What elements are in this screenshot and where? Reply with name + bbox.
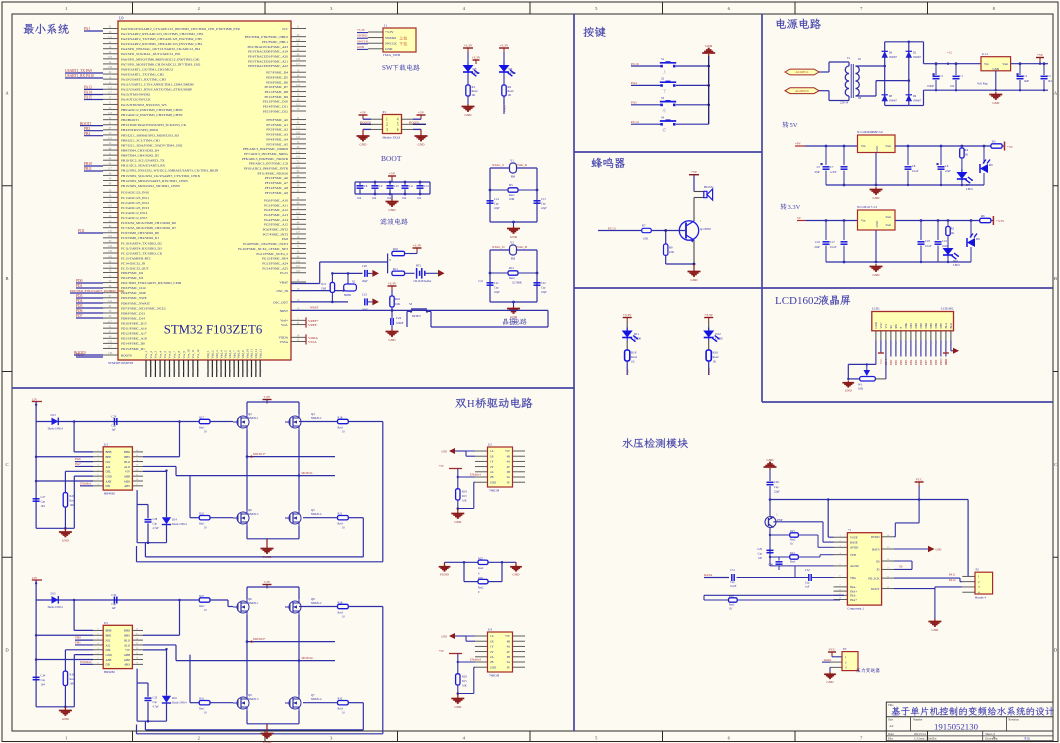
svg-text:104: 104 <box>402 197 407 200</box>
svg-text:D16: D16 <box>172 697 177 700</box>
svg-text:C19: C19 <box>942 239 947 243</box>
svg-text:D9: D9 <box>989 163 993 167</box>
svg-text:STM32 F103ZET6: STM32 F103ZET6 <box>164 323 263 337</box>
svg-text:+3.3V: +3.3V <box>500 44 509 48</box>
svg-text:PB11/I2C2_SDA/USART3_RX: PB11/I2C2_SDA/USART3_RX <box>121 164 166 168</box>
svg-text:BASE: BASE <box>850 540 858 544</box>
svg-text:Vss_4: Vss_4 <box>158 350 162 358</box>
svg-text:VSSA: VSSA <box>308 340 317 344</box>
svg-text:PD9/FSMC_D14: PD9/FSMC_D14 <box>121 316 145 320</box>
svg-text:NMOS-1: NMOS-1 <box>248 602 259 605</box>
svg-text:Q7: Q7 <box>311 693 315 697</box>
svg-text:MOTO1-: MOTO1- <box>302 471 314 475</box>
svg-text:Res1: Res1 <box>199 605 205 608</box>
svg-text:2B: 2B <box>490 660 493 664</box>
svg-text:BLK: BLK <box>949 322 953 329</box>
svg-text:Vout: Vout <box>885 215 891 219</box>
svg-text:PC8/TIM8_CH3/SDIO_D0: PC8/TIM8_CH3/SDIO_D0 <box>121 231 159 235</box>
svg-text:AHE: AHE <box>106 658 112 662</box>
svg-text:C22: C22 <box>541 282 546 285</box>
svg-text:DB6: DB6 <box>920 359 923 365</box>
svg-text:DB3: DB3 <box>905 359 908 365</box>
svg-text:AHS: AHS <box>124 484 130 488</box>
svg-text:Vdd_13: Vdd_13 <box>258 348 262 358</box>
svg-text:C18: C18 <box>925 239 930 243</box>
svg-text:Cap: Cap <box>153 523 158 526</box>
svg-text:3.3V: 3.3V <box>788 204 801 211</box>
svg-text:CR1220/holder: CR1220/holder <box>414 279 432 283</box>
svg-text:VO: VO <box>884 324 888 328</box>
svg-text:Cap: Cap <box>41 679 46 682</box>
svg-text:C24: C24 <box>396 316 402 320</box>
svg-text:Cap: Cap <box>541 287 546 290</box>
svg-text:7.2V: 7.2V <box>264 395 271 399</box>
svg-text:DATA: DATA <box>824 658 833 662</box>
svg-text:R19: R19 <box>462 490 467 494</box>
svg-text:GND: GND <box>873 273 881 277</box>
svg-text:File:: File: <box>888 737 893 741</box>
svg-text:Q5: Q5 <box>311 508 315 512</box>
svg-text:PB1: PB1 <box>75 640 81 644</box>
svg-text:C21: C21 <box>494 282 499 285</box>
svg-text:GND: GND <box>389 338 397 342</box>
svg-text:GND: GND <box>106 474 112 478</box>
svg-text:PF10/ADC3_IN8/FSMC_INTR: PF10/ADC3_IN8/FSMC_INTR <box>244 167 289 171</box>
svg-text:SWDIO: SWDIO <box>357 34 368 38</box>
svg-text:Component_1: Component_1 <box>847 607 864 611</box>
svg-text:S4: S4 <box>661 115 665 119</box>
svg-text:100uF: 100uF <box>927 85 934 88</box>
svg-text:PA7/SPI1_MOSI/TIM8_CH1N/ADC12_: PA7/SPI1_MOSI/TIM8_CH1N/ADC12_IN7/TIM3_C… <box>121 62 201 66</box>
svg-text:DATA: DATA <box>704 573 713 577</box>
svg-text:S3: S3 <box>409 302 413 306</box>
svg-text:4: 4 <box>397 118 399 122</box>
svg-text:PC0: PC0 <box>626 369 630 375</box>
svg-text:PE9/FSMC_D6: PE9/FSMC_D6 <box>266 80 288 84</box>
svg-text:4B: 4B <box>507 639 510 643</box>
svg-text:NMOS-3: NMOS-3 <box>248 698 259 701</box>
svg-text:PE14/FSMC_D11: PE14/FSMC_D11 <box>263 105 288 109</box>
svg-text:PA14/JTCK/SWCLK: PA14/JTCK/SWCLK <box>121 98 151 102</box>
svg-text:Vss_11: Vss_11 <box>191 349 195 358</box>
svg-text:Y2: Y2 <box>510 241 514 245</box>
svg-text:Volt Reg: Volt Reg <box>977 82 988 86</box>
svg-text:U5: U5 <box>104 621 108 625</box>
svg-text:8M: 8M <box>511 257 516 261</box>
svg-text:Res3: Res3 <box>338 612 344 615</box>
svg-text:BATS: BATS <box>872 547 880 551</box>
svg-text:C7: C7 <box>830 165 834 169</box>
svg-text:Res2: Res2 <box>478 567 484 570</box>
svg-text:PC2/ADC123_IN12: PC2/ADC123_IN12 <box>121 201 149 205</box>
svg-text:NMOS-4: NMOS-4 <box>311 698 322 701</box>
svg-text:GND: GND <box>873 196 881 200</box>
svg-text:DEL: DEL <box>106 470 112 474</box>
svg-text:SWCLK: SWCLK <box>357 39 369 43</box>
svg-text:R31: R31 <box>199 697 204 701</box>
svg-text:74HC08: 74HC08 <box>489 489 500 493</box>
svg-text:N1 LM2940IMP-5.0: N1 LM2940IMP-5.0 <box>857 130 883 134</box>
svg-text:C21: C21 <box>478 280 483 283</box>
svg-text:PE1/FSMC_NBL1: PE1/FSMC_NBL1 <box>262 40 288 44</box>
svg-text:C31: C31 <box>730 569 735 572</box>
svg-text:PB10/I2C2_SCL/USART3_TX: PB10/I2C2_SCL/USART3_TX <box>121 159 165 163</box>
svg-text:DB7: DB7 <box>925 359 928 365</box>
svg-text:MOTO1+: MOTO1+ <box>253 452 266 456</box>
svg-text:PD2/TIM3_ETR/UART5_RX/SDIO_CMD: PD2/TIM3_ETR/UART5_RX/SDIO_CMD <box>121 281 182 285</box>
svg-text:PC0/ADC123_IN10: PC0/ADC123_IN10 <box>121 191 149 195</box>
svg-text:PA8/USART1_CK/TIM1_CH1/MCO: PA8/USART1_CK/TIM1_CH1/MCO <box>121 67 174 71</box>
svg-text:R13: R13 <box>462 680 467 683</box>
svg-text:1: 1 <box>65 6 67 11</box>
svg-text:+5V: +5V <box>505 634 511 638</box>
svg-text:PE12/FSMC_D9: PE12/FSMC_D9 <box>265 95 289 99</box>
svg-text:PE7/FSMC_D4: PE7/FSMC_D4 <box>266 71 288 75</box>
svg-text:B: B <box>1054 276 1057 281</box>
svg-text:Diode 1N914: Diode 1N914 <box>172 523 187 526</box>
svg-text:3B: 3B <box>507 470 510 474</box>
svg-text:DIS: DIS <box>106 663 111 667</box>
svg-text:1B: 1B <box>490 639 493 643</box>
svg-text:PB3/JTDO/TRACESWO/SPI3_SCK/I2S: PB3/JTDO/TRACESWO/SPI3_SCK/I2S3_CK <box>121 123 187 127</box>
svg-text:Cap: Cap <box>541 203 546 206</box>
svg-text:2: 2 <box>386 123 388 127</box>
svg-text:R29: R29 <box>462 675 467 679</box>
svg-text:C29: C29 <box>111 415 116 419</box>
svg-text:Res3: Res3 <box>338 523 344 526</box>
svg-text:LED0: LED0 <box>715 337 723 341</box>
svg-text:+3.3V: +3.3V <box>472 56 481 60</box>
svg-text:PG0/FSMC_A10: PG0/FSMC_A10 <box>264 198 288 202</box>
svg-text:N/C: N/C <box>282 27 288 31</box>
svg-text:BT1: BT1 <box>416 264 422 268</box>
svg-text:R10: R10 <box>393 247 399 251</box>
svg-text:NLI: NLI <box>106 638 111 642</box>
svg-text:PG5/FSMC_A15: PG5/FSMC_A15 <box>264 223 288 227</box>
svg-text:GND: GND <box>874 322 878 328</box>
svg-text:PF4/FSMC_A4: PF4/FSMC_A4 <box>266 137 288 141</box>
svg-text:PC3/ADC123_IN13: PC3/ADC123_IN13 <box>121 206 149 210</box>
svg-text:U2: U2 <box>488 443 492 447</box>
svg-text:B: B <box>5 276 8 281</box>
svg-text:Res2: Res2 <box>509 277 515 280</box>
svg-text:PD6/FSMC_NWAIT: PD6/FSMC_NWAIT <box>121 301 151 305</box>
svg-text:Q2: Q2 <box>248 412 252 416</box>
svg-text:PB4/JNTRST/SPI3_MISO: PB4/JNTRST/SPI3_MISO <box>121 128 159 132</box>
svg-text:PC14-OSC32_IN: PC14-OSC32_IN <box>121 262 146 266</box>
svg-text:AC220V-L: AC220V-L <box>796 70 809 74</box>
svg-text:GND: GND <box>360 143 368 147</box>
svg-text:+5V: +5V <box>691 170 698 174</box>
svg-text:GND: GND <box>691 278 699 282</box>
svg-text:+5V: +5V <box>1007 145 1014 149</box>
svg-text:PA10/USART1_RX/TIM1_CH3: PA10/USART1_RX/TIM1_CH3 <box>121 78 166 82</box>
svg-text:22pF: 22pF <box>494 291 500 294</box>
svg-text:Header 3X2A: Header 3X2A <box>383 136 401 140</box>
svg-text:8MHz: 8MHz <box>344 294 352 297</box>
svg-text:+3.3V: +3.3V <box>623 313 632 317</box>
svg-text:JTAG_SWD: JTAG_SWD <box>383 53 401 57</box>
svg-text:PF0/FSMC_A0: PF0/FSMC_A0 <box>266 118 288 122</box>
svg-text:Diode 1N914: Diode 1N914 <box>48 606 64 609</box>
svg-text:PE6/TRACED3/FSMC_A22: PE6/TRACED3/FSMC_A22 <box>248 64 288 68</box>
svg-text:Q1 8050: Q1 8050 <box>700 227 711 231</box>
svg-text:R28: R28 <box>338 601 343 605</box>
svg-text:*1: *1 <box>848 528 852 532</box>
svg-text:C12: C12 <box>424 185 429 188</box>
svg-text:PA12/USART1_RTS/CANTX/TIM1_ETR: PA12/USART1_RTS/CANTX/TIM1_ETR/USBDP <box>121 88 192 92</box>
svg-text:DB9: DB9 <box>935 359 938 365</box>
svg-text:D8: D8 <box>976 237 980 241</box>
svg-text:+3.3V: +3.3V <box>464 44 473 48</box>
svg-text:GND: GND <box>441 636 447 639</box>
svg-text:Vout: Vout <box>1002 62 1008 66</box>
svg-text:1N4007: 1N4007 <box>913 56 922 59</box>
svg-text:PA5: PA5 <box>631 101 637 105</box>
svg-text:C17: C17 <box>830 240 835 244</box>
svg-text:R21: R21 <box>338 512 343 516</box>
svg-text:MOTO2-: MOTO2- <box>302 656 314 660</box>
svg-text:INA+: INA+ <box>850 598 857 602</box>
svg-text:1915052130: 1915052130 <box>934 721 979 731</box>
svg-text:Res1: Res1 <box>199 427 205 430</box>
svg-text:PF2/FSMC_A2: PF2/FSMC_A2 <box>266 128 288 132</box>
svg-text:DB4: DB4 <box>910 359 913 365</box>
svg-text:GND: GND <box>385 47 393 51</box>
svg-text:22pF: 22pF <box>774 491 780 494</box>
svg-text:PF11/FSMC_NIOS16: PF11/FSMC_NIOS16 <box>258 171 289 175</box>
svg-text:PG1/FSMC_A11: PG1/FSMC_A11 <box>264 203 288 207</box>
svg-text:10K: 10K <box>858 387 864 391</box>
svg-text:Cap: Cap <box>730 581 735 584</box>
svg-text:2B: 2B <box>490 475 493 479</box>
svg-text:XTAL_D: XTAL_D <box>492 245 505 249</box>
svg-text:GND: GND <box>490 665 496 669</box>
svg-text:VREF-: VREF- <box>308 323 318 327</box>
svg-text:P1: P1 <box>383 110 387 114</box>
svg-text:R11: R11 <box>393 267 398 271</box>
svg-text:Q8: Q8 <box>311 597 315 601</box>
svg-text:R26: R26 <box>478 576 483 580</box>
svg-text:S3: S3 <box>661 96 665 100</box>
svg-text:S2: S2 <box>661 77 665 81</box>
svg-text:GND: GND <box>490 480 496 484</box>
svg-text:GND: GND <box>62 717 70 721</box>
svg-text:XTAL_S: XTAL_S <box>492 163 504 167</box>
svg-text:DB4: DB4 <box>924 322 928 328</box>
svg-text:R5: R5 <box>951 227 955 231</box>
svg-text:ENable1: ENable1 <box>470 473 482 477</box>
svg-text:GND: GND <box>936 549 942 552</box>
svg-text:C: C <box>5 462 8 467</box>
svg-text:PA11/USART1_CTS/CANRX/TIM1_CH4: PA11/USART1_CTS/CANRX/TIM1_CH4/USBDM <box>121 83 194 87</box>
svg-text:PA4: PA4 <box>631 81 637 85</box>
svg-text:DB8: DB8 <box>930 359 933 365</box>
svg-text:SWCLK: SWCLK <box>385 41 397 45</box>
svg-text:PA9/USART1_TX/TIM1_CH2: PA9/USART1_TX/TIM1_CH2 <box>121 72 164 76</box>
svg-text:+5V: +5V <box>389 172 396 176</box>
svg-text:Vin: Vin <box>984 62 989 66</box>
svg-text:47uF: 47uF <box>814 171 820 174</box>
svg-text:VBAT: VBAT <box>279 280 288 284</box>
svg-text:NLI: NLI <box>106 460 111 464</box>
svg-text:PA7: PA7 <box>75 462 81 466</box>
svg-text:1K: 1K <box>729 608 732 611</box>
svg-text:Vref-: Vref- <box>281 323 288 327</box>
svg-text:D11: D11 <box>634 332 640 336</box>
svg-text:GND: GND <box>389 208 397 212</box>
svg-text:GND: GND <box>418 143 426 147</box>
svg-text:R16: R16 <box>713 351 719 355</box>
svg-text:C26: C26 <box>774 480 779 484</box>
svg-text:2: 2 <box>198 736 200 741</box>
svg-text:Vout: Vout <box>885 144 891 148</box>
svg-text:NRST: NRST <box>280 309 288 313</box>
svg-text:PE2/TRACECK/FSMC_A23: PE2/TRACECK/FSMC_A23 <box>248 45 289 49</box>
svg-text:C6: C6 <box>945 164 949 168</box>
svg-text:ENable1: ENable1 <box>80 481 92 485</box>
svg-text:VCC: VCC <box>916 478 924 482</box>
svg-text:GND: GND <box>875 145 879 152</box>
svg-text:Vss_10: Vss_10 <box>187 349 191 359</box>
svg-text:R19: R19 <box>631 351 637 355</box>
svg-text:AVDD: AVDD <box>850 546 859 550</box>
svg-text:22pF: 22pF <box>494 207 500 210</box>
svg-text:10K: 10K <box>462 685 467 688</box>
svg-text:PC7/I2S3_MCK/TIM8_CH2/SDIO_D7: PC7/I2S3_MCK/TIM8_CH2/SDIO_D7 <box>121 226 176 230</box>
svg-text:+12: +12 <box>947 51 952 55</box>
svg-text:7.2V: 7.2V <box>264 580 271 584</box>
svg-text:C5: C5 <box>817 165 821 169</box>
svg-text:PB6/I2C1_SCL/TIM4_CH1: PB6/I2C1_SCL/TIM4_CH1 <box>121 138 160 142</box>
svg-text:C13: C13 <box>541 198 546 201</box>
svg-text:Res3: Res3 <box>338 427 344 430</box>
svg-text:PD7/FSMC_NE1/FSMC_NCE2: PD7/FSMC_NE1/FSMC_NCE2 <box>121 306 166 310</box>
svg-text:Diode 1N914: Diode 1N914 <box>48 428 64 431</box>
svg-text:Cap: Cap <box>758 553 763 556</box>
svg-text:Size: Size <box>888 717 894 721</box>
svg-text:PD14/FSMC_D0: PD14/FSMC_D0 <box>121 342 145 346</box>
svg-text:Res2: Res2 <box>790 539 796 542</box>
svg-text:PA2/USART2_TX/TIM5_CH3/ADC123_: PA2/USART2_TX/TIM5_CH3/ADC123_IN2/TIM2_C… <box>121 37 202 41</box>
svg-text:3B: 3B <box>507 655 510 659</box>
svg-text:BLO: BLO <box>124 460 130 464</box>
svg-text:Res1: Res1 <box>199 523 205 526</box>
svg-text:VSSA: VSSA <box>280 340 289 344</box>
svg-text:Q6: Q6 <box>248 597 252 601</box>
svg-text:10K: 10K <box>462 500 467 503</box>
svg-text:BHS: BHS <box>124 634 130 638</box>
svg-text:C28: C28 <box>153 518 158 521</box>
svg-text:PB13/SPI2_SCK/I2S2_CK/USART3_C: PB13/SPI2_SCK/I2S2_CK/USART3_CTS/TIM1_CH… <box>121 174 201 178</box>
svg-text:MOTO2+: MOTO2+ <box>253 637 266 641</box>
svg-text:AHB: AHB <box>124 474 130 478</box>
svg-text:D10: D10 <box>953 259 959 263</box>
svg-text:R9: R9 <box>669 246 673 250</box>
svg-text:C23: C23 <box>362 292 367 296</box>
svg-text:PD12/FSMC_A17: PD12/FSMC_A17 <box>121 332 147 336</box>
svg-text:1uF: 1uF <box>805 586 810 589</box>
svg-text:104: 104 <box>372 197 377 200</box>
svg-text:+5V: +5V <box>418 111 425 115</box>
svg-text:DB7: DB7 <box>939 322 943 328</box>
svg-text:R29: R29 <box>729 595 734 598</box>
svg-text:VCC: VCC <box>880 358 883 364</box>
svg-text:PG10/FSMC_NCE4_1/FSMC_NE3: PG10/FSMC_NCE4_1/FSMC_NE3 <box>238 247 288 251</box>
svg-text:Res2: Res2 <box>790 561 796 564</box>
svg-text:0.1uF: 0.1uF <box>830 246 837 249</box>
svg-text:OSC_OUT: OSC_OUT <box>273 300 288 304</box>
svg-text:HIP4082: HIP4082 <box>104 670 115 674</box>
svg-text:PE3/TRACED0/FSMC_A19: PE3/TRACED0/FSMC_A19 <box>248 50 288 54</box>
svg-text:PD11/FSMC_A16: PD11/FSMC_A16 <box>121 327 147 331</box>
svg-text:VCC: VCC <box>945 358 948 364</box>
svg-text:PA11: PA11 <box>949 573 956 577</box>
svg-text:10K: 10K <box>669 250 675 254</box>
svg-text:Res2: Res2 <box>713 355 720 359</box>
svg-text:GND: GND <box>441 451 447 454</box>
svg-text:32.768K: 32.768K <box>512 282 522 285</box>
svg-text:4.7uF: 4.7uF <box>153 527 160 530</box>
svg-text:BHB: BHB <box>106 450 112 454</box>
svg-text:DB0: DB0 <box>890 359 893 365</box>
svg-text:104: 104 <box>357 197 362 200</box>
svg-text:Date:: Date: <box>888 732 894 736</box>
svg-text:Y1: Y1 <box>510 159 514 163</box>
svg-text:1: 1 <box>65 736 67 741</box>
svg-text:AHE: AHE <box>106 479 112 483</box>
svg-text:PF7/ADC3_IN5/FSMC_NREG: PF7/ADC3_IN5/FSMC_NREG <box>244 152 288 156</box>
svg-text:R13: R13 <box>321 283 326 286</box>
svg-text:C:\Users\..\KebDoc: C:\Users\..\KebDoc <box>914 737 938 741</box>
svg-text:220-14: 220-14 <box>840 101 849 105</box>
svg-text:AHB: AHB <box>124 653 130 657</box>
svg-text:Cap: Cap <box>494 287 499 290</box>
svg-text:Vss_3: Vss_3 <box>154 350 158 358</box>
svg-text:OSC_IN: OSC_IN <box>276 289 288 293</box>
svg-text:PA1/USART2_RTS/ADC123_IN1/TIM5: PA1/USART2_RTS/ADC123_IN1/TIM5_CH2/TIM2_… <box>121 32 203 36</box>
svg-text:PD10/FSMC_D15: PD10/FSMC_D15 <box>121 322 147 326</box>
svg-text:10uF: 10uF <box>814 246 820 249</box>
svg-text:PF15/FSMC_A9: PF15/FSMC_A9 <box>265 191 289 195</box>
svg-text:ALI: ALI <box>106 643 111 647</box>
svg-text:Vout: Vout <box>885 223 891 227</box>
svg-text:PB0: PB0 <box>75 636 81 640</box>
svg-text:12V: 12V <box>32 397 38 401</box>
svg-text:NRST: NRST <box>310 306 320 310</box>
svg-text:ALI: ALI <box>106 465 111 469</box>
svg-text:104: 104 <box>1048 80 1053 83</box>
svg-text:PB8/TIM4_CH3/SDIO_D4: PB8/TIM4_CH3/SDIO_D4 <box>121 148 159 152</box>
svg-text:R3: R3 <box>509 183 513 187</box>
svg-text:R17: R17 <box>199 416 204 420</box>
svg-text:HIP4082: HIP4082 <box>104 492 115 496</box>
svg-text:Vss_9: Vss_9 <box>182 350 186 358</box>
svg-text:C29: C29 <box>757 548 762 551</box>
svg-text:BHO: BHO <box>124 629 130 633</box>
svg-text:D12: D12 <box>715 332 721 336</box>
svg-text:P2: P2 <box>976 568 980 572</box>
svg-text:5V: 5V <box>797 216 802 220</box>
svg-text:1uF: 1uF <box>758 557 763 560</box>
svg-text:GND: GND <box>845 388 853 392</box>
svg-text:PG6/FSMC_INT2: PG6/FSMC_INT2 <box>263 228 289 232</box>
svg-text:BLA: BLA <box>944 322 948 329</box>
svg-text:PG11/FSMC_NCE4_2: PG11/FSMC_NCE4_2 <box>256 252 288 256</box>
svg-text:+5V: +5V <box>505 449 511 453</box>
svg-text:SWDIO: SWDIO <box>385 36 397 40</box>
svg-text:PA3/USART2_RX/TIM5_CH4/ADC123_: PA3/USART2_RX/TIM5_CH4/ADC123_IN3/TIM2_C… <box>121 42 202 46</box>
